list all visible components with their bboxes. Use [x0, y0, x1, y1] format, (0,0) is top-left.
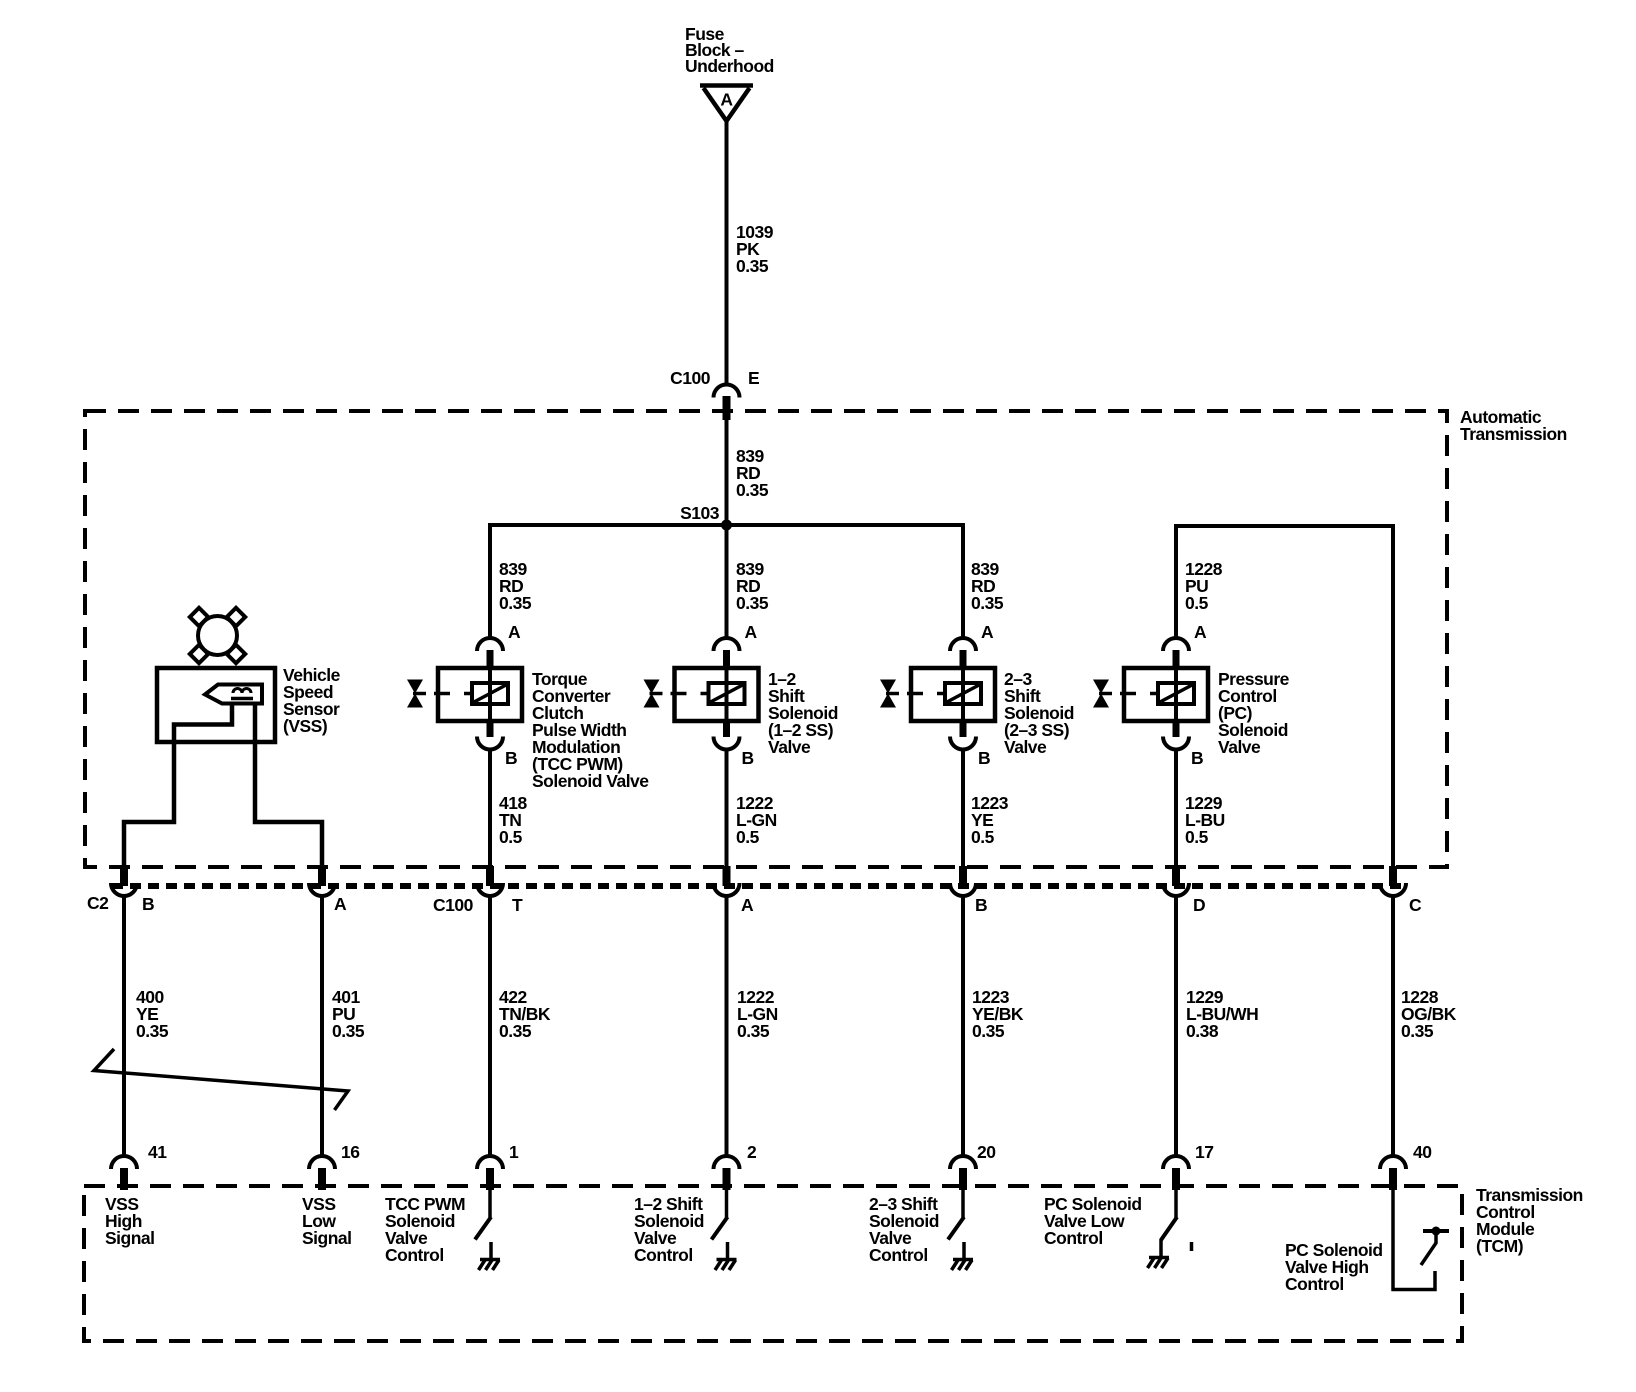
svg-text:0.5: 0.5 — [736, 827, 760, 847]
wire: 1039 PK 0.35 from fuse block to C100 E — [725, 119, 729, 385]
connector terminal C100 pin D — [1163, 866, 1189, 896]
connector terminal C100 pin A — [714, 866, 740, 896]
PC solenoid valve high control driver switch (pin 40) — [1421, 1227, 1449, 1266]
wire: S103 splice horizontal bus to solenoid branches — [490, 525, 963, 639]
connector terminal C100 pin B — [950, 866, 976, 896]
svg-text:Signal: Signal — [105, 1228, 155, 1248]
wire: VSS left lead to connector C2 pin B — [124, 703, 232, 868]
svg-text:20: 20 — [977, 1142, 996, 1162]
svg-text:A: A — [745, 622, 758, 642]
svg-text:17: 17 — [1195, 1142, 1213, 1162]
vehicle speed sensor VSS: toothed reluctor wheel — [190, 608, 245, 663]
svg-text:C: C — [1409, 895, 1422, 915]
svg-text:0.38: 0.38 — [1186, 1021, 1219, 1041]
wire: TCM pin 40 to high-side driver — [1391, 1190, 1395, 1291]
wire 422 TN/BK segment to TCM — [488, 896, 492, 1157]
vehicle speed sensor VSS: sensor body box — [157, 668, 275, 742]
svg-text:0.35: 0.35 — [332, 1021, 365, 1041]
wire 400 YE segment to TCM — [122, 896, 126, 1157]
connector C100 pin E — [670, 368, 759, 420]
connector terminal C2 pin B — [111, 866, 137, 896]
splice S103 — [680, 503, 732, 531]
svg-text:A: A — [508, 622, 521, 642]
TCM connector pin 1 — [477, 1156, 503, 1190]
TCM connector pin 16 — [309, 1156, 335, 1190]
wire 418 TN 0.5 segment — [488, 749, 492, 868]
wire 1223 YE 0.5 segment — [961, 749, 965, 868]
connector terminal C100 pin T — [477, 866, 503, 896]
svg-text:(TCM): (TCM) — [1476, 1236, 1523, 1256]
svg-text:Control: Control — [634, 1245, 693, 1265]
svg-text:E: E — [748, 368, 759, 388]
svg-text:B: B — [978, 748, 990, 768]
svg-text:Transmission: Transmission — [1460, 424, 1567, 444]
svg-text:41: 41 — [148, 1142, 167, 1162]
2-3 shift solenoid valve control driver switch (pin 20) — [948, 1190, 964, 1259]
svg-text:Valve: Valve — [1218, 737, 1261, 757]
ground — [479, 1260, 501, 1271]
wire: middle branch S103 down to 1-2 shift solenoid — [725, 525, 729, 639]
svg-text:Control: Control — [1044, 1228, 1103, 1248]
svg-text:Signal: Signal — [302, 1228, 352, 1248]
svg-text:0.35: 0.35 — [499, 593, 532, 613]
svg-text:0.35: 0.35 — [737, 1021, 770, 1041]
vehicle speed sensor VSS: pickup coil arrow — [205, 685, 262, 704]
TCM connector pin 20 — [950, 1156, 976, 1190]
solenoid valve: Torque Converter Clutch PWM (TCC PWM) Solenoid Valve — [407, 638, 522, 750]
Transmission Control Module (TCM) dashed box — [84, 1186, 1462, 1341]
svg-text:0.35: 0.35 — [136, 1021, 169, 1041]
svg-text:16: 16 — [341, 1142, 360, 1162]
svg-text:Solenoid Valve: Solenoid Valve — [532, 771, 649, 791]
1-2 shift solenoid valve control driver switch (pin 2) — [712, 1190, 728, 1259]
svg-text:S103: S103 — [680, 503, 720, 523]
wire 1229 L-BU 0.5 segment — [1174, 749, 1178, 868]
connector terminal C2 pin A — [309, 866, 335, 896]
svg-text:A: A — [334, 894, 347, 914]
svg-text:A: A — [1194, 622, 1207, 642]
svg-text:B: B — [142, 894, 154, 914]
svg-text:Valve: Valve — [1004, 737, 1047, 757]
svg-text:Control: Control — [869, 1245, 928, 1265]
svg-text:C100: C100 — [433, 895, 474, 915]
power feed triangle A (Fuse Block - Underhood) — [700, 86, 753, 122]
svg-text:C100: C100 — [670, 368, 711, 388]
svg-text:C2: C2 — [87, 893, 109, 913]
TCM connector pin 17 — [1163, 1156, 1189, 1190]
wire 1229 L-BU/WH segment to TCM — [1174, 896, 1178, 1157]
svg-text:0.35: 0.35 — [499, 1021, 532, 1041]
solenoid valve: 1-2 Shift Solenoid (1-2 SS) Valve — [644, 638, 759, 750]
svg-text:B: B — [505, 748, 517, 768]
wire: 839 RD 0.35 from C100 E to splice S103 — [725, 413, 729, 527]
wire 1222 L-GN 0.5 segment — [725, 749, 729, 868]
TCM connector pin 2 — [714, 1156, 740, 1190]
svg-text:Underhood: Underhood — [685, 56, 774, 76]
svg-text:2: 2 — [747, 1142, 757, 1162]
svg-text:1: 1 — [509, 1142, 519, 1162]
svg-text:0.35: 0.35 — [736, 480, 769, 500]
twisted pair symbol across VSS leads — [94, 1049, 348, 1110]
TCM connector pin 41 — [111, 1156, 137, 1190]
wire 1222 L-GN segment to TCM — [725, 896, 729, 1157]
TCM connector pin 40 — [1380, 1156, 1406, 1190]
wire: VSS right lead to connector C2 pin A — [255, 703, 322, 868]
svg-text:(VSS): (VSS) — [283, 716, 327, 736]
svg-text:0.35: 0.35 — [736, 593, 769, 613]
ground — [715, 1260, 737, 1271]
wire 1228 OG/BK segment to TCM — [1391, 896, 1395, 1157]
svg-text:0.35: 0.35 — [736, 256, 769, 276]
TCC PWM solenoid valve control driver switch (pin 1) — [475, 1190, 491, 1259]
ground — [952, 1260, 974, 1271]
solenoid valve: Pressure Control (PC) Solenoid Valve — [1093, 638, 1208, 750]
wire: 1228 PU loop from PC solenoid pin A to TCM pin 40 — [1176, 526, 1393, 868]
svg-text:0.35: 0.35 — [972, 1021, 1005, 1041]
svg-text:B: B — [975, 895, 987, 915]
svg-text:0.35: 0.35 — [1401, 1021, 1434, 1041]
svg-text:B: B — [742, 748, 754, 768]
svg-text:0.5: 0.5 — [499, 827, 523, 847]
svg-text:0.5: 0.5 — [1185, 593, 1209, 613]
svg-text:B: B — [1191, 748, 1203, 768]
svg-text:Valve: Valve — [768, 737, 811, 757]
connector terminal C100 pin C — [1380, 866, 1406, 896]
svg-text:0.5: 0.5 — [971, 827, 995, 847]
inline connector row (C2 / C100) dotted line — [112, 883, 1404, 889]
wire 1223 YE/BK segment to TCM — [961, 896, 965, 1157]
ground — [1148, 1258, 1170, 1269]
Automatic Transmission component dashed box — [85, 411, 1447, 867]
svg-text:A: A — [720, 90, 733, 110]
PC solenoid valve low control driver switch (pin 17) — [1161, 1190, 1192, 1257]
solenoid valve: 2-3 Shift Solenoid (2-3 SS) Valve — [880, 638, 995, 750]
wire 401 PU segment to TCM — [320, 896, 324, 1157]
svg-text:0.5: 0.5 — [1185, 827, 1209, 847]
svg-text:Control: Control — [385, 1245, 444, 1265]
svg-text:40: 40 — [1413, 1142, 1432, 1162]
svg-text:A: A — [981, 622, 994, 642]
svg-text:T: T — [512, 895, 523, 915]
svg-text:D: D — [1193, 895, 1205, 915]
svg-text:Control: Control — [1285, 1274, 1344, 1294]
svg-text:0.35: 0.35 — [971, 593, 1004, 613]
svg-text:A: A — [741, 895, 754, 915]
